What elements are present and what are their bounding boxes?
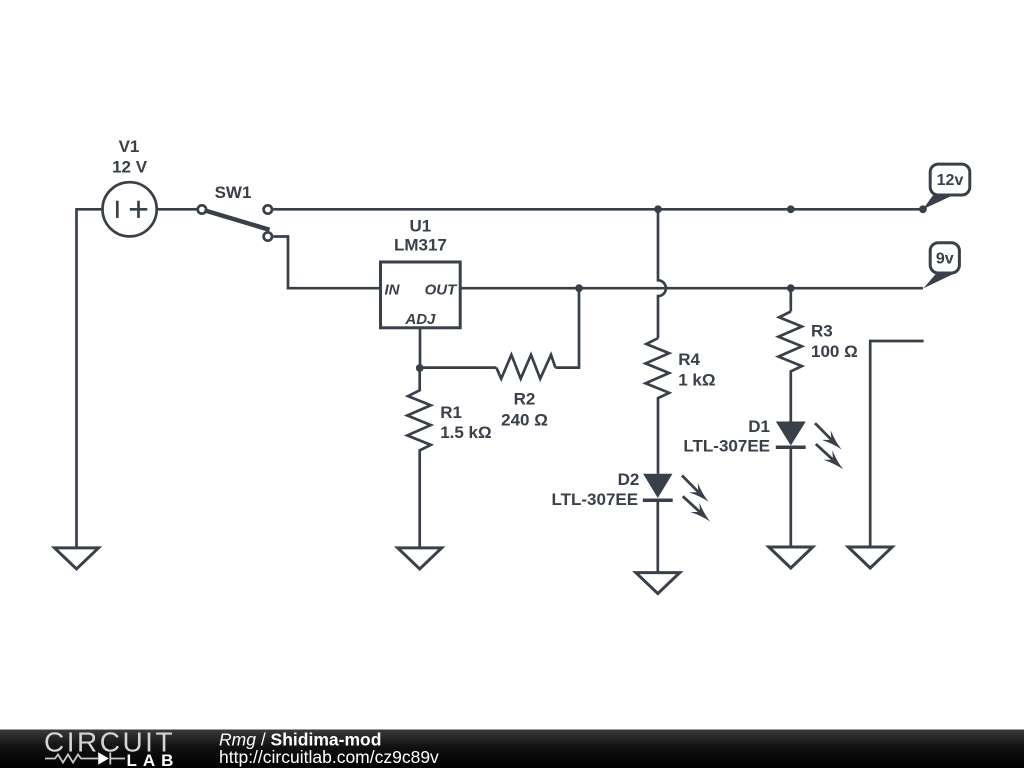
node dot ADJ junction bbox=[416, 364, 424, 372]
wire D2 cathode to ground bbox=[656, 500, 659, 572]
svg-text:U1: U1 bbox=[410, 217, 432, 236]
LED D1 bbox=[776, 422, 843, 470]
svg-text:240 Ω: 240 Ω bbox=[501, 411, 548, 430]
resistor R1 bbox=[407, 368, 431, 548]
ground G4 bbox=[769, 547, 813, 568]
wire OUT junction down to R2 bbox=[555, 288, 579, 367]
wire 12v rail bbox=[273, 208, 923, 211]
resistor R3 bbox=[778, 312, 802, 422]
svg-text:D2: D2 bbox=[618, 470, 640, 489]
wire R4 vertical with hop bbox=[658, 209, 666, 338]
wire V1 to SW1 pole bbox=[157, 208, 197, 211]
node dot 12v flag end bbox=[919, 205, 927, 213]
svg-text:V1: V1 bbox=[119, 137, 140, 156]
footer bar bbox=[0, 730, 1024, 768]
node dot 12v rail at x790 bbox=[787, 205, 795, 213]
regulator U1 LM317 box bbox=[381, 262, 461, 328]
svg-text:R2: R2 bbox=[514, 390, 536, 409]
svg-text:ADJ: ADJ bbox=[404, 311, 436, 328]
svg-text:100 Ω: 100 Ω bbox=[811, 342, 858, 361]
svg-text:LTL-307EE: LTL-307EE bbox=[552, 490, 639, 509]
ground G5 bbox=[848, 547, 892, 568]
svg-text:R1: R1 bbox=[440, 403, 462, 422]
svg-text:LTL-307EE: LTL-307EE bbox=[683, 437, 770, 456]
node dot OUT junction bbox=[575, 284, 583, 292]
svg-text:12v: 12v bbox=[937, 172, 964, 189]
wire D1 cathode to ground bbox=[789, 447, 792, 547]
svg-text:SW1: SW1 bbox=[215, 183, 252, 202]
svg-text:D1: D1 bbox=[748, 417, 770, 436]
voltage source V1 bbox=[103, 182, 157, 236]
svg-text:1 kΩ: 1 kΩ bbox=[678, 371, 715, 390]
wire U1 OUT 9v rail bbox=[460, 287, 923, 290]
svg-text:R3: R3 bbox=[811, 321, 833, 340]
svg-text:IN: IN bbox=[385, 281, 401, 298]
wire R2 to ADJ node bbox=[420, 366, 497, 369]
wire SW1 throw2 to U1 IN bbox=[273, 237, 380, 289]
wire U1 ADJ down bbox=[419, 328, 422, 368]
resistor R3 leads bbox=[789, 288, 792, 311]
LED D2 bbox=[643, 474, 710, 522]
svg-text:R4: R4 bbox=[678, 350, 700, 369]
node dot 9v rail at R3 bbox=[787, 284, 795, 292]
wire V1 left lead to ground bbox=[77, 209, 103, 548]
node dot 12v rail at R4 bbox=[654, 205, 662, 213]
flag 9v bbox=[924, 243, 960, 289]
svg-text:OUT: OUT bbox=[425, 281, 459, 298]
svg-text:1.5 kΩ: 1.5 kΩ bbox=[440, 423, 491, 442]
svg-text:http://circuitlab.com/cz9c89v: http://circuitlab.com/cz9c89v bbox=[219, 747, 439, 767]
svg-text:LAB: LAB bbox=[127, 751, 180, 768]
ground G2 bbox=[398, 548, 442, 569]
svg-text:9v: 9v bbox=[936, 251, 954, 268]
resistor R4 bbox=[646, 338, 670, 474]
switch SW1 bbox=[198, 205, 206, 213]
flag 12v bbox=[923, 164, 970, 209]
ground G3 bbox=[636, 573, 680, 594]
resistor R2 bbox=[496, 355, 555, 379]
wire far-right stub bbox=[870, 341, 923, 547]
ground G1 bbox=[55, 548, 99, 569]
svg-text:12 V: 12 V bbox=[112, 157, 148, 176]
logo resistor-diode glyph bbox=[45, 753, 125, 765]
svg-text:LM317: LM317 bbox=[394, 235, 447, 254]
